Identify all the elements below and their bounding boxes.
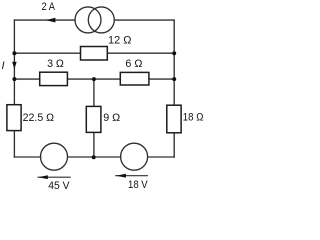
svg-text:3 Ω: 3 Ω [47,58,64,70]
svg-text:18 V: 18 V [128,179,148,191]
svg-text:18 Ω: 18 Ω [183,111,204,123]
svg-text:12 Ω: 12 Ω [108,35,131,47]
svg-text:45 V: 45 V [48,180,70,192]
svg-text:9 Ω: 9 Ω [103,112,120,124]
svg-text:2 A: 2 A [42,1,56,13]
svg-text:I: I [2,60,5,72]
svg-text:22.5 Ω: 22.5 Ω [23,112,54,124]
svg-text:6 Ω: 6 Ω [125,58,142,70]
